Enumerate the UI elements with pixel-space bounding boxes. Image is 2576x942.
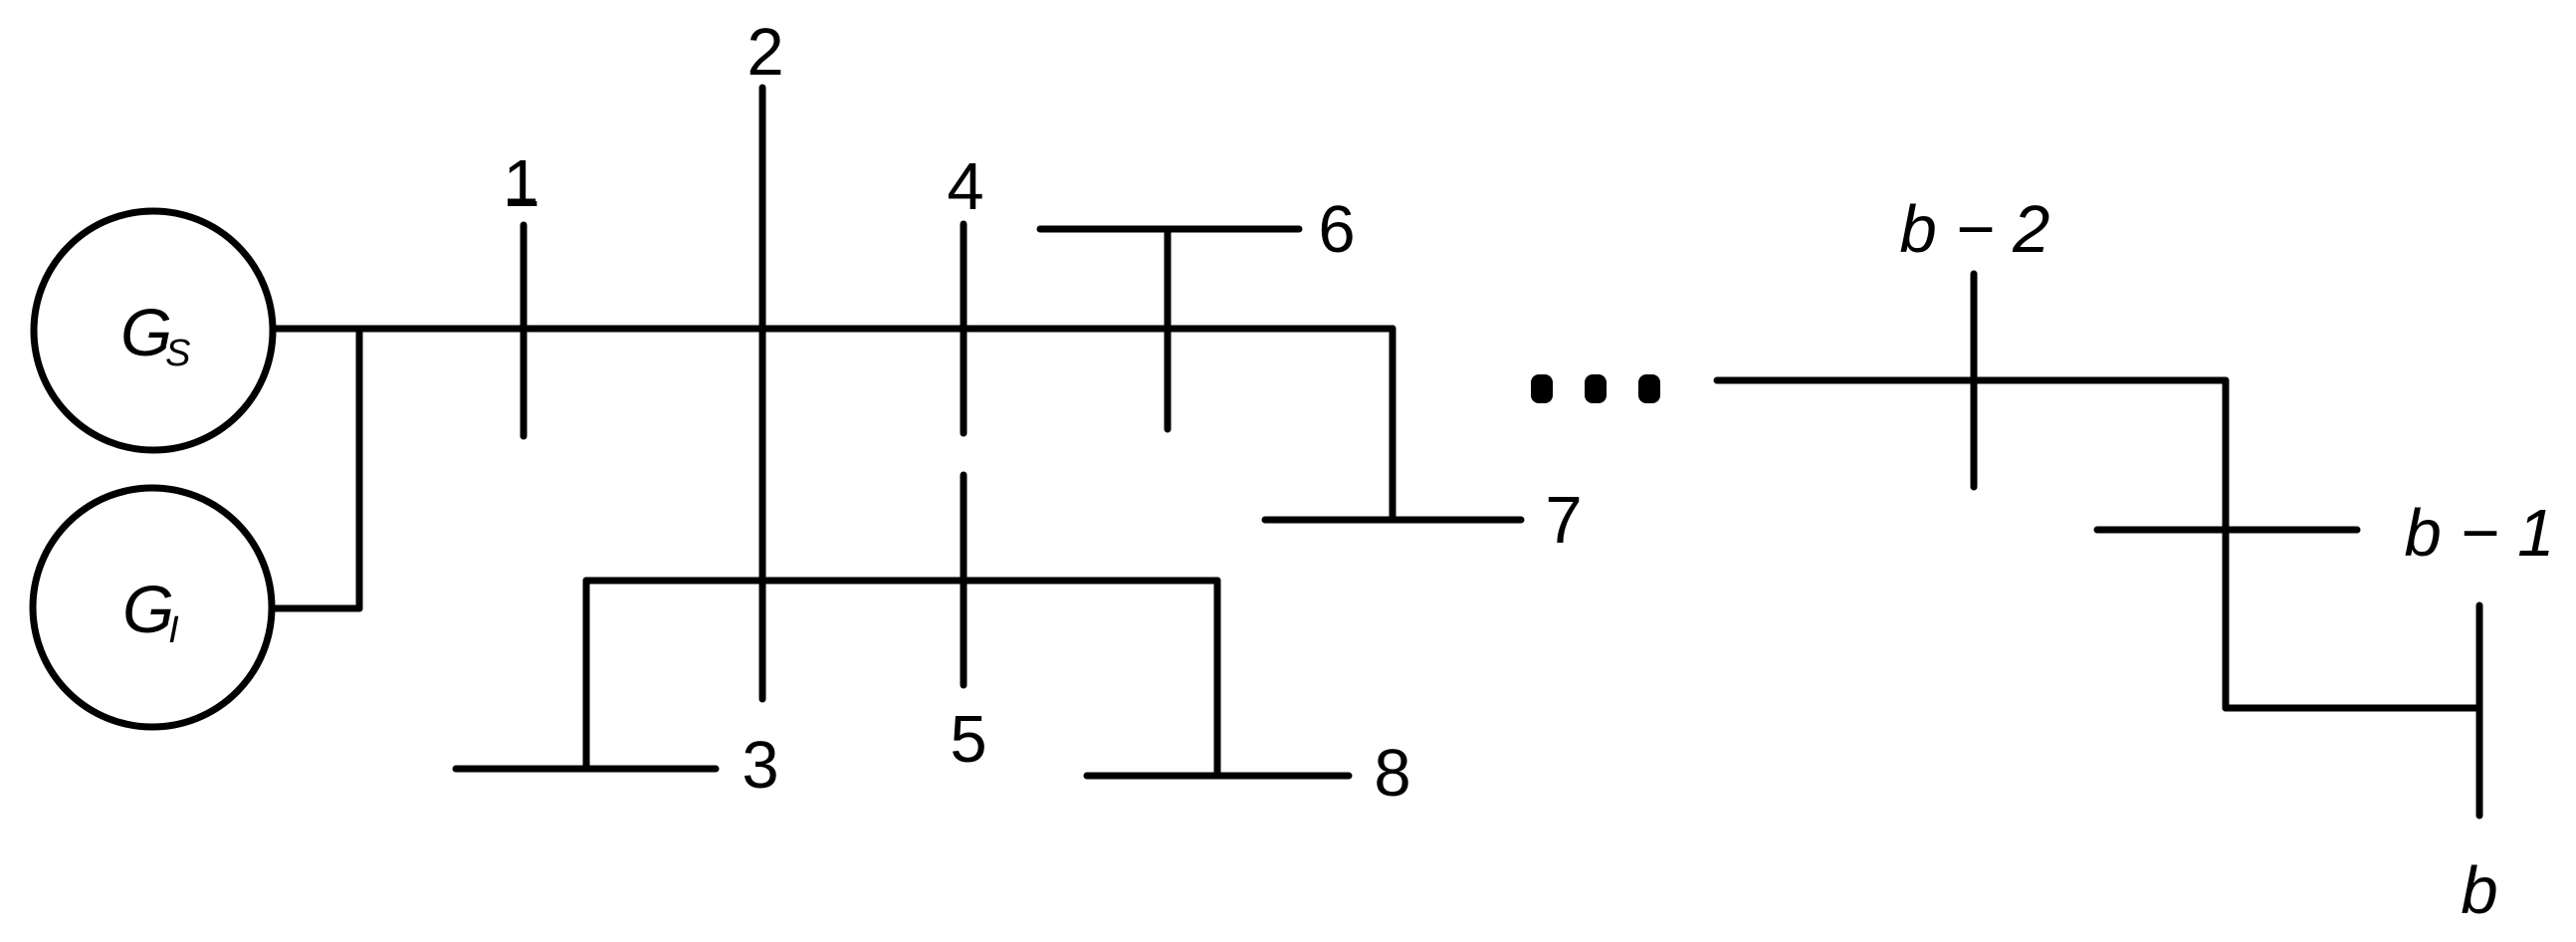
svg-text:b − 2: b − 2 (1900, 192, 2050, 267)
bus b-1 bar (2097, 527, 2357, 534)
wire: bus 8 stem (1214, 581, 1221, 776)
wire: bus 6 stem (1165, 229, 1172, 429)
wire: GI riser vertical (356, 329, 363, 608)
svg-text:1: 1 (503, 146, 539, 221)
bus 2 bar (759, 88, 766, 699)
bus b bar (2476, 605, 2483, 816)
svg-text:6: 6 (1318, 192, 1355, 267)
svg-text:5: 5 (950, 702, 986, 777)
svg-text:GS: GS (120, 296, 190, 374)
bus 7 bar (1265, 517, 1521, 524)
wire: GI stub horizontal (276, 605, 359, 612)
generator GI circle (33, 488, 272, 727)
ellipsis dot 3 (1638, 374, 1660, 403)
bus 1 bar (521, 225, 528, 436)
svg-text:b − 1: b − 1 (2405, 496, 2555, 571)
svg-text:3: 3 (742, 728, 778, 803)
svg-text:b: b (2461, 853, 2497, 928)
wire: bus 3 stem (583, 581, 590, 769)
wire: main feeder from GS (273, 326, 1393, 333)
bus 6 bar (1040, 226, 1299, 233)
bus 5 bar (961, 475, 967, 685)
bus 3 bar (456, 766, 716, 773)
bus 8 bar (1087, 773, 1349, 780)
svg-text:8: 8 (1374, 736, 1410, 811)
ellipsis dot 1 (1531, 374, 1553, 403)
svg-text:4: 4 (947, 149, 983, 224)
svg-text:7: 7 (1545, 483, 1582, 558)
bus 4 bar (961, 224, 967, 433)
generator GS circle (34, 211, 273, 450)
bus b-2 bar (1971, 274, 1978, 487)
svg-text:GI: GI (122, 573, 179, 651)
wire: right feeder segment (1717, 377, 2226, 384)
wire: bottom link to bus b (2226, 705, 2479, 712)
wire: right feeder drop (2223, 380, 2230, 708)
svg-text:2: 2 (747, 15, 783, 90)
ellipsis dot 2 (1585, 374, 1607, 403)
wire: feeder drop to bus 7 (1390, 329, 1396, 520)
wire: lower tie line (586, 578, 1217, 585)
